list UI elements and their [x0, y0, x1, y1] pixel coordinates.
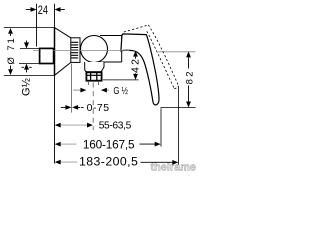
svg-text:G ½: G ½ [20, 78, 32, 96]
centerline (faucet axis) [33, 50, 130, 52]
dimension 82 extension bottom [161, 107, 196, 109]
body sphere [81, 36, 108, 63]
dimension 183-200,5 [55, 160, 179, 165]
body cylinder [94, 36, 122, 63]
svg-text:G ½: G ½ [113, 85, 128, 97]
svg-text:Ø 71: Ø 71 [6, 38, 17, 64]
dimension 160-167,5 [55, 142, 161, 147]
row4 reference line (open lever tip) [178, 86, 180, 164]
lever handle open position dashed [124, 25, 179, 89]
svg-text:55-63,5: 55-63,5 [99, 121, 132, 132]
svg-text:0-75: 0-75 [87, 102, 110, 114]
extension line 82 top [158, 51, 195, 53]
outlet nut [86, 72, 101, 80]
wall plane line [54, 4, 56, 164]
wall union block [40, 48, 54, 63]
dimension 55-63,5 [55, 123, 93, 128]
dimension D71 extension lines [4, 28, 55, 76]
svg-text:24: 24 [38, 3, 48, 17]
dimension D71 [8, 28, 13, 75]
outlet stub G1/2 [88, 81, 98, 85]
dimension 0-75 [61, 105, 84, 110]
G1/2 inlet dimension [22, 41, 32, 73]
G1/2 inlet extension lines [19, 49, 39, 64]
dimension 42 [133, 51, 138, 80]
G1/2 outlet label arrows [73, 88, 109, 93]
svg-text:160-167,5: 160-167,5 [83, 137, 135, 151]
dimension 82 [186, 51, 191, 107]
escutcheon cone [55, 28, 71, 76]
lever handle solid [121, 34, 159, 105]
dimension 24 extension left [36, 4, 38, 47]
dimension 42 extension [103, 79, 139, 81]
outlet housing [85, 62, 104, 72]
knurled ring [71, 38, 80, 63]
row3 reference line (lever tip) [160, 108, 162, 146]
outlet centerline [92, 83, 94, 131]
row1 reference line [71, 64, 73, 113]
dimension 24 [26, 7, 65, 12]
svg-text:183-200,5: 183-200,5 [79, 155, 138, 169]
